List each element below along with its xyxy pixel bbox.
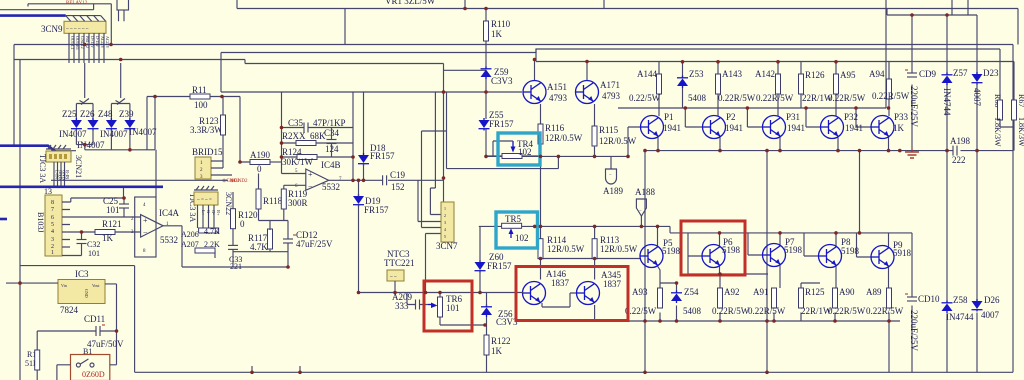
svg-text:R125: R125 (805, 287, 825, 297)
svg-text:4.7K: 4.7K (204, 227, 220, 236)
svg-text:Z53: Z53 (689, 69, 704, 79)
svg-text:C32: C32 (87, 240, 100, 249)
svg-text:102: 102 (515, 233, 529, 243)
svg-text:G-: G- (206, 210, 211, 215)
svg-text:R122: R122 (491, 336, 511, 346)
svg-text:D26: D26 (984, 295, 1000, 305)
svg-text:47P/1KP: 47P/1KP (313, 118, 346, 128)
svg-text:1: 1 (51, 250, 54, 256)
svg-text:152: 152 (391, 182, 405, 192)
wire top res rail verticals (659, 62, 889, 117)
flag A188 (635, 187, 655, 226)
resistor R115 (592, 125, 637, 146)
svg-text:6: 6 (51, 215, 54, 221)
connector 3CN7 (436, 202, 458, 251)
svg-text:A188: A188 (635, 187, 655, 197)
transistor P6 (702, 237, 741, 268)
wire P-row emitters down (658, 137, 889, 151)
svg-text:+: + (308, 170, 313, 179)
svg-text:100: 100 (194, 100, 208, 110)
svg-text:−: − (143, 228, 148, 237)
svg-text:CD9: CD9 (919, 69, 937, 79)
wire 3CN9 pins (69, 33, 104, 63)
svg-text:Z25: Z25 (62, 109, 77, 119)
wire TJC3 pins down (54, 162, 65, 187)
transistor P32 (821, 112, 864, 139)
wire bottom res to rail (660, 283, 889, 372)
resistor R68 (993, 94, 1003, 147)
svg-text:5198: 5198 (722, 245, 741, 255)
svg-text:101: 101 (446, 303, 460, 313)
svg-text:Z57: Z57 (953, 68, 968, 78)
capacitor C19 (383, 170, 406, 192)
connector 3CN9 (41, 21, 106, 34)
highlight red P6 (681, 221, 745, 275)
resistor A190 (250, 150, 282, 174)
transistor P7 (763, 237, 803, 267)
wire TJC3 mid pins (198, 205, 216, 258)
capacitor CD9 (905, 69, 937, 128)
wire feedback left vertical (240, 92, 282, 174)
svg-text:1.8K/3W: 1.8K/3W (1017, 117, 1024, 147)
svg-text:GND: GND (84, 289, 89, 298)
svg-text:R67: R67 (1017, 94, 1024, 107)
wire rail y70 (443, 69, 486, 71)
resistor A90 (828, 287, 866, 316)
svg-text:Z54: Z54 (684, 287, 699, 297)
svg-text:Z48: Z48 (98, 109, 113, 119)
transistor A171 (576, 80, 621, 104)
connector TJC3 3A top (38, 145, 83, 183)
regulator IC3 (6, 269, 117, 365)
svg-text:7824: 7824 (60, 305, 79, 315)
resistor A95 (828, 70, 866, 103)
diode Z53 (677, 69, 707, 103)
svg-text:R2XX: R2XX (282, 131, 306, 141)
svg-text:B103J: B103J (36, 212, 45, 232)
transistor P1 (641, 112, 682, 139)
svg-text:A91: A91 (753, 287, 769, 297)
red pin marks mid (201, 210, 221, 216)
svg-text:IN4744: IN4744 (946, 312, 974, 322)
svg-text:1941: 1941 (663, 123, 681, 133)
capacitor C33 (228, 245, 242, 271)
svg-text:4793: 4793 (549, 93, 568, 103)
svg-text:220uF/25V: 220uF/25V (909, 310, 919, 352)
svg-text:BRID15: BRID15 (192, 147, 223, 157)
svg-text:3CN21: 3CN21 (74, 155, 83, 178)
resistor A206 (181, 227, 220, 239)
resistor R125 (799, 287, 833, 316)
svg-text:G-: G- (211, 210, 216, 215)
highlight red A146 A345 (516, 267, 628, 321)
wire collector rail bottom (670, 232, 912, 234)
wire R110 column (485, 9, 487, 69)
trimmer TR6 (428, 293, 487, 326)
highlight cyan TR5 (496, 212, 538, 248)
wire P-row bottom bases (688, 233, 871, 274)
wire pins to diodes (76, 63, 129, 120)
svg-text:IC4A: IC4A (159, 208, 180, 218)
svg-text:4793: 4793 (602, 91, 621, 101)
diode Z60 (475, 226, 513, 292)
wire Z59-Z55 column (485, 78, 487, 157)
svg-text:TTC221: TTC221 (384, 258, 415, 268)
svg-text:R+: R+ (216, 210, 221, 216)
svg-text:1.8K/3W: 1.8K/3W (993, 117, 1002, 147)
switch tick marks (80, 99, 126, 105)
svg-text:~ ~: ~ ~ (390, 275, 397, 280)
bus analog in 1 (0, 146, 56, 152)
svg-text:221: 221 (230, 262, 242, 271)
relay box top left (0, 1, 111, 10)
svg-text:5918: 5918 (893, 248, 912, 258)
svg-text:0.22/5W: 0.22/5W (629, 93, 661, 103)
svg-text:TR5: TR5 (505, 214, 522, 224)
svg-text:12R/0.5W: 12R/0.5W (547, 244, 585, 254)
svg-text:101: 101 (88, 249, 100, 258)
zener Z56 (481, 293, 518, 336)
svg-text:A94: A94 (869, 69, 885, 79)
svg-text:A93: A93 (632, 287, 648, 297)
svg-text:0.22/5W: 0.22/5W (625, 306, 657, 316)
wire rail y44 (14, 9, 1013, 45)
svg-text:IC3: IC3 (75, 269, 89, 279)
svg-text:0: 0 (257, 164, 262, 174)
trimmer TR4 (486, 139, 541, 159)
resistor R1 (25, 350, 40, 380)
resistor R122 (484, 335, 511, 372)
wire top left stubs (111, 4, 124, 45)
capacitor A198 (950, 136, 970, 165)
svg-text:Z26: Z26 (80, 109, 95, 119)
svg-text:IC4B: IC4B (321, 160, 341, 170)
svg-text:5: 5 (51, 222, 54, 228)
svg-text:A144: A144 (637, 69, 657, 79)
svg-text:3CN7: 3CN7 (436, 241, 458, 251)
diode Z26 (80, 109, 99, 131)
resistor R11 (147, 85, 240, 110)
wire driver emitters (541, 104, 595, 156)
diode D19 (353, 180, 389, 292)
svg-text:A190: A190 (250, 150, 270, 160)
resistor A91 (748, 287, 786, 316)
svg-text:A92: A92 (724, 287, 740, 297)
svg-text:R126: R126 (805, 70, 825, 80)
capacitor C34 (324, 128, 340, 158)
svg-text:A89: A89 (866, 287, 882, 297)
resistor R124 (282, 92, 364, 180)
svg-text:R115: R115 (599, 125, 619, 135)
svg-text:0.22R/5W: 0.22R/5W (872, 91, 910, 101)
svg-text:222: 222 (952, 155, 966, 165)
svg-text:3: 3 (444, 220, 446, 225)
svg-text:1K: 1K (102, 233, 114, 243)
svg-text:IN4007: IN4007 (129, 127, 157, 137)
svg-text:Z58: Z58 (953, 295, 968, 305)
svg-text:0.22R/5W: 0.22R/5W (828, 93, 866, 103)
trimmer TR5 (479, 214, 670, 243)
svg-text:A198: A198 (950, 136, 970, 146)
wire A188 vertical (859, 151, 861, 233)
bus into 3CN9 (0, 14, 66, 17)
svg-text:C19: C19 (390, 170, 406, 180)
svg-text:IN4007: IN4007 (59, 129, 87, 139)
resistor R114 (538, 235, 585, 259)
wire B103J pin routing (62, 198, 124, 256)
wire left vertical x20 (19, 60, 21, 380)
svg-text:0.22R/5W: 0.22R/5W (756, 93, 794, 103)
svg-text:1941: 1941 (787, 123, 805, 133)
capacitor A209 (392, 292, 428, 311)
resistor R126 (799, 70, 834, 103)
wire rail y59 (14, 49, 1014, 70)
svg-text:D+15V: D+15V (90, 36, 95, 48)
svg-text:P2: P2 (726, 112, 736, 122)
svg-text:47uF/50V: 47uF/50V (87, 339, 124, 349)
wire rail y52 (221, 49, 1000, 53)
transistor A151 (523, 81, 568, 104)
svg-text:A90: A90 (839, 287, 855, 297)
transistor A146 (521, 269, 576, 307)
svg-text:FR157: FR157 (364, 205, 389, 215)
svg-text:1941: 1941 (725, 123, 743, 133)
svg-text:1837: 1837 (551, 278, 570, 288)
svg-text:−: − (609, 173, 612, 178)
bus stub left (0, 218, 7, 221)
svg-text:OUT-L1: OUT-L1 (70, 36, 75, 50)
svg-text:5198: 5198 (841, 246, 860, 256)
diode D18 (358, 143, 395, 180)
wire emitter rail y150.6 (645, 150, 1013, 152)
svg-text:P1: P1 (664, 112, 674, 122)
svg-text:5532: 5532 (160, 235, 178, 245)
wire rail y92 driver base (221, 53, 522, 93)
relay B1 (57, 347, 117, 380)
svg-text:⊕GND2: ⊕GND2 (230, 178, 248, 184)
svg-text:0.22R/5W: 0.22R/5W (712, 306, 750, 316)
svg-text:12R/0.5W: 12R/0.5W (599, 136, 637, 146)
svg-text:PRT-12: PRT-12 (85, 36, 90, 48)
svg-text:+: + (143, 216, 148, 225)
svg-text:3: 3 (51, 237, 54, 243)
3CN9 pin labels (70, 36, 110, 50)
svg-text:CD10: CD10 (918, 294, 940, 304)
svg-text:5198: 5198 (784, 245, 803, 255)
wire opamp out (329, 179, 444, 181)
wire D23-D26 column (976, 15, 978, 372)
svg-text:3.3R/3W: 3.3R/3W (190, 125, 223, 135)
svg-text:CD11: CD11 (84, 314, 105, 324)
diode Z48 (98, 109, 117, 131)
capacitor C32 (77, 232, 101, 258)
svg-text:220uF/25V: 220uF/25V (909, 86, 919, 128)
svg-text:102: 102 (518, 147, 532, 157)
wire P5-P9 emitters (658, 265, 889, 288)
resistor A143 (716, 69, 756, 103)
svg-text:R110: R110 (491, 19, 511, 29)
svg-text:1837: 1837 (603, 279, 622, 289)
svg-text:R118: R118 (263, 196, 283, 206)
transistor P9 (871, 240, 912, 269)
svg-text:0.22R/5W: 0.22R/5W (718, 93, 756, 103)
transistor P8 (819, 237, 860, 268)
resistor R118 (256, 174, 283, 221)
svg-text:AC22V: AC22V (105, 36, 110, 49)
svg-text:P32: P32 (844, 112, 858, 122)
wire Z57-Z58 column (946, 15, 948, 372)
svg-text:A142: A142 (755, 69, 775, 79)
svg-text:A151: A151 (547, 82, 567, 92)
resistor R121 (82, 219, 141, 243)
wire left vertical x14 (13, 45, 15, 147)
resistor A142 (755, 69, 794, 103)
wire R114 R113 column (541, 156, 642, 279)
svg-text:5: 5 (444, 234, 446, 239)
svg-text:~ = ~ =: ~ = ~ = (197, 198, 212, 203)
svg-text:−: − (308, 182, 313, 191)
svg-text:~ ~ ~ ~ ~ ~: ~ ~ ~ ~ ~ ~ (66, 27, 89, 32)
diode Z55 (479, 110, 515, 131)
wire diode bottoms (76, 129, 155, 150)
highlight red TR6 (424, 281, 472, 331)
svg-text:R121: R121 (102, 219, 122, 229)
wire rail y15 right (887, 0, 977, 15)
svg-text:D-15V: D-15V (95, 36, 100, 47)
svg-text:D23: D23 (983, 68, 999, 78)
resistor A144 (629, 69, 662, 103)
zener Z57 (942, 68, 968, 116)
resistor R116 (538, 123, 583, 144)
resistor A94 (869, 69, 910, 101)
resistor A92 (712, 287, 750, 316)
svg-text:1K: 1K (491, 346, 503, 356)
svg-text:5408: 5408 (688, 93, 707, 103)
wire CD9 column (911, 15, 913, 148)
transistor P5 (640, 238, 681, 268)
resistor R119 (259, 185, 308, 220)
diode Z39 (119, 109, 135, 131)
op-amp IC4B (282, 160, 343, 192)
svg-text:1K: 1K (491, 29, 503, 39)
svg-text:1941: 1941 (845, 123, 863, 133)
wire driver collectors (535, 60, 588, 81)
resistor R113 (592, 235, 638, 259)
svg-text:300R: 300R (288, 198, 308, 208)
transistor P2 (703, 112, 744, 139)
diode Z25 (62, 109, 82, 131)
svg-text:A206: A206 (181, 230, 199, 239)
capacitor C35 (282, 118, 354, 133)
svg-text:A143: A143 (722, 69, 742, 79)
resistor A89 (866, 287, 904, 316)
capacitor CD12 (283, 221, 333, 252)
svg-text:4007: 4007 (981, 310, 1000, 320)
svg-text:7: 7 (51, 207, 54, 213)
red pin marks (55, 170, 71, 180)
resistor R67 (1012, 94, 1024, 147)
svg-text:C35: C35 (288, 118, 304, 128)
svg-text:R116: R116 (545, 123, 565, 133)
resistor R2XX (282, 131, 354, 146)
svg-text:47uF/25V: 47uF/25V (296, 239, 333, 249)
wire y150 link (51, 97, 155, 151)
transistor P31 (763, 112, 806, 139)
svg-text:1K: 1K (893, 123, 905, 133)
connector BRID15 (192, 147, 232, 180)
svg-text:−: − (639, 209, 642, 214)
wire 3CN7 feeds (418, 70, 447, 292)
wire CD10 column (911, 233, 913, 372)
svg-text:5408: 5408 (683, 306, 702, 316)
connector B103J (36, 187, 62, 256)
svg-text:P33: P33 (894, 112, 909, 122)
capacitor CD10 (905, 294, 940, 352)
wire R68 column (1000, 49, 1014, 127)
box top right small (117, 0, 129, 10)
svg-text:Vout: Vout (92, 283, 100, 288)
svg-text:Z39: Z39 (119, 109, 134, 119)
wire P-row bases (628, 108, 871, 127)
transistor P33 (871, 112, 909, 139)
svg-text:GND12: GND12 (80, 36, 85, 49)
svg-text:L+: L+ (201, 210, 206, 216)
svg-text:A171: A171 (600, 80, 620, 90)
svg-text:12R/0.5W: 12R/0.5W (600, 244, 638, 254)
transistor A345 (577, 270, 622, 321)
zener Z59 (481, 67, 514, 87)
resistor R120 (231, 192, 259, 245)
wire rail y295 (359, 292, 522, 294)
wire R67 column (1013, 62, 1015, 151)
svg-text:IN4744: IN4744 (942, 88, 952, 116)
svg-text:0.22R/5W: 0.22R/5W (828, 306, 866, 316)
resistor R123 (190, 97, 226, 159)
zener Z58 (942, 295, 974, 322)
svg-text:FR157: FR157 (487, 261, 512, 271)
capacitor C25 (103, 196, 141, 217)
op-amp IC4A (131, 197, 288, 267)
svg-text:VR1 3ZL/5W: VR1 3ZL/5W (385, 0, 436, 6)
wire driver output y156.9 (486, 127, 628, 156)
svg-text:0: 0 (240, 219, 245, 229)
diode D23 (972, 68, 999, 107)
capacitor CD11 (37, 314, 124, 350)
svg-text:4: 4 (444, 227, 446, 232)
svg-text:AC22V: AC22V (100, 36, 105, 49)
svg-text:30K/1W: 30K/1W (282, 157, 314, 167)
svg-text:Vin: Vin (61, 283, 67, 288)
flag A189 (603, 156, 623, 196)
svg-text:FR157: FR157 (370, 151, 395, 161)
svg-text:8: 8 (51, 200, 54, 206)
wire right vertical x1013 (1012, 45, 1014, 373)
svg-text:4: 4 (51, 229, 54, 235)
resistor R110 (484, 19, 511, 41)
svg-text:2.2K: 2.2K (204, 240, 220, 249)
resistor A207 (181, 240, 220, 253)
wire gnd2 line (51, 150, 228, 198)
wire top rail V+ (237, 0, 1018, 45)
svg-text:101: 101 (106, 205, 120, 215)
svg-text:0Z60D: 0Z60D (82, 370, 105, 379)
svg-text:5198: 5198 (662, 246, 681, 256)
svg-text:A95: A95 (840, 70, 856, 80)
wire P5-P9 collector stubs (658, 226, 889, 247)
wire rail y321 (560, 151, 900, 366)
svg-text:R-IN: R-IN (65, 170, 70, 180)
svg-text:OUT-R1: OUT-R1 (75, 36, 80, 50)
